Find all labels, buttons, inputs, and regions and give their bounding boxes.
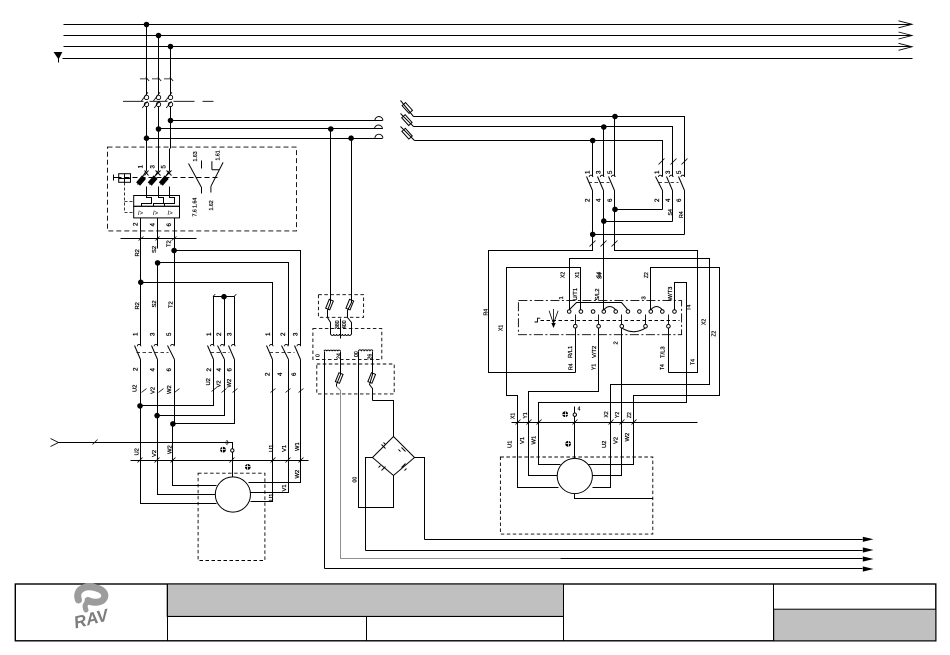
overload relay F1 body [134,196,180,218]
svg-text:U1: U1 [508,441,514,448]
svg-text:W2: W2 [167,385,173,394]
earth terminal circle motor2 [573,413,576,416]
svg-text:S4: S4 [597,272,603,278]
wire Z2 loop c8 to motor W2 [634,268,720,423]
wire V2 to motor1 [158,416,216,495]
svg-text:2: 2 [613,341,619,344]
svg-text:U1: U1 [269,445,275,452]
wire output line4 [325,568,863,570]
svg-text:T4: T4 [690,359,696,365]
wire X2 loop c1 to motor U2 [570,259,710,423]
svg-text:R/L1: R/L1 [568,346,574,358]
svg-text:1: 1 [265,332,272,336]
label motor1 right terminals [269,470,301,501]
terminal strip motor2 [512,420,698,425]
contactor K2 linkage [211,352,230,354]
svg-text:1.62: 1.62 [209,200,215,210]
label primary taps 380 400 [335,320,348,329]
fuse feeder F4b [401,114,414,127]
contactor K3 pole 3 [295,339,301,461]
wire main pole T2 down [174,251,176,339]
svg-text:1: 1 [133,332,140,336]
svg-text:W2: W2 [227,379,233,388]
auxiliary contact 1.63 1.64 [189,161,202,194]
wire drop phase3 [170,47,172,96]
node K4K5 joint a [613,207,618,212]
svg-text:V2: V2 [151,387,157,394]
contactor K5 linkage [659,182,679,184]
svg-text:R2: R2 [135,302,141,309]
svg-text:1: 1 [138,165,145,169]
motor M2 dashed enclosure [500,457,652,534]
arrow output line1 [863,537,874,542]
svg-text:X1: X1 [499,325,505,331]
svg-text:V1: V1 [520,437,526,444]
contactor K1 main pole 1 [135,339,141,406]
svg-text:T2: T2 [168,301,174,308]
wire phase1 to breaker [146,139,148,149]
svg-text:6: 6 [607,198,614,202]
transformer secondary winding 00-26 [359,350,373,351]
terminal strip line below breaker [121,237,197,241]
svg-text:3: 3 [149,332,156,336]
label switch wire names small [499,272,718,370]
svg-text:I>: I> [168,211,174,217]
wire phase3 below disconnect [170,107,172,121]
wire W1 to motor1 [249,461,301,483]
breaker manual operator [114,174,134,213]
logo RAV [72,587,112,633]
wire relay output 6 [174,218,176,249]
wire relay output 4 [157,218,159,249]
svg-text:1: 1 [654,170,661,174]
svg-text:V2: V2 [152,450,158,457]
wire b5 drop [668,329,670,373]
motor protection breaker Q1 dashed enclosure [108,147,297,231]
label PE wire 3 [226,441,229,447]
label K5 pole numbers [654,170,683,202]
wire V1 to motor1 [251,461,289,493]
wire rectifier dc plus [415,458,425,540]
contactor K3 pole 1 [267,339,274,461]
svg-text:Y1: Y1 [523,412,529,418]
svg-text:R4: R4 [483,309,489,316]
wire WT3 loop c10 to motor W1 [539,283,687,423]
label K1 output wires U2 V2 W2 [132,385,173,394]
wire bus L1 [64,24,912,26]
wire feeder row2 [159,128,383,130]
svg-text:2: 2 [133,367,140,371]
fuse box F3 dashed [317,364,394,394]
svg-text:2: 2 [216,332,223,336]
svg-text:2: 2 [133,222,140,226]
svg-text:00: 00 [353,477,359,483]
wire 24 output grey [337,387,561,559]
breaker pole 1 [137,149,149,196]
node tap R2 [139,280,144,285]
svg-text:U1: U1 [269,494,275,501]
svg-text:2: 2 [585,198,592,202]
contactor K3 linkage [270,352,295,354]
contactor K2 pole 1 [141,297,215,406]
ticks R contactor inputs [659,159,688,165]
wire output line2 [366,550,863,552]
node K4K5 joint b [602,219,607,224]
wire U2 to motor1 [141,406,217,504]
contactor K5 pole 5 [679,173,685,235]
node junction L3 [168,44,173,49]
label secondary taps [315,351,373,359]
svg-text:T2: T2 [167,240,173,247]
svg-text:X2: X2 [702,319,708,325]
wire W1 to motor2 [539,423,561,465]
svg-text:4: 4 [665,198,672,202]
fuse F2b [346,295,354,318]
earth symbol motor1 b [245,464,251,470]
wire U2 to motor2 [593,423,611,488]
wire feeder right row3 [415,141,663,173]
wire K5 p3 to K4 p3 [604,221,673,223]
svg-text:W1: W1 [295,442,301,451]
arrow output line4 [863,566,874,571]
svg-text:6: 6 [166,223,173,227]
svg-text:T/L3: T/L3 [660,346,666,358]
contactor K4 pole 1 [587,170,593,235]
jumper arc c8 c9 [651,307,663,310]
svg-text:U2: U2 [206,378,212,385]
contactor K1 main pole 3 [152,339,158,416]
svg-text:X2: X2 [561,272,567,278]
wire V1 to motor2 [529,423,558,476]
earth symbol motor2 a [562,411,568,417]
connector socket row3 [375,134,383,138]
svg-text:6: 6 [166,368,173,372]
svg-text:3: 3 [227,332,234,336]
label wire 00 [353,477,359,483]
svg-text:5: 5 [166,332,173,336]
svg-text:1: 1 [585,170,592,174]
svg-text:R4: R4 [679,211,685,218]
label overload I> symbols [138,211,173,217]
node tap S contactor p1 [590,138,595,143]
node K4K5 joint c [590,232,595,237]
svg-text:3: 3 [293,332,300,336]
svg-text:V1: V1 [282,445,288,452]
label strip1 wires U2 V2 W2 [135,445,174,457]
transformer primary winding [331,319,351,339]
arrow L2 [899,32,913,39]
cam switch actuator symbols [535,309,559,328]
svg-text:0: 0 [315,354,321,357]
earth terminal circle motor1 [231,449,234,452]
earth symbol motor2 b [565,441,571,447]
svg-text:V/T2: V/T2 [592,346,598,358]
svg-text:S2: S2 [152,300,158,307]
svg-text:6: 6 [227,368,234,372]
svg-text:2: 2 [654,198,661,202]
switch contact strokes [576,315,669,325]
svg-text:R4: R4 [569,363,575,370]
wire K5 p5 to K4 p1 [593,234,685,236]
svg-text:T4: T4 [686,304,692,310]
label wires R2 S2 T2 lower [135,300,174,309]
wire transformer feed b [351,139,353,295]
wire phase3 to breaker [170,121,172,149]
svg-text:U2: U2 [132,385,138,392]
ticks K2 outputs [212,388,238,393]
breaker pole 5 [160,149,172,196]
svg-text:S/L2: S/L2 [595,289,601,301]
svg-text:6: 6 [676,198,683,202]
node tap S contactor p5 [613,114,618,119]
motor M1 [215,477,250,512]
arrow output line2 [863,547,874,552]
wire feeder right row1 [414,117,685,173]
wire W2 to motor2 [589,423,634,465]
wire U1 to motor2 [518,423,559,488]
wire S contactor drops [593,117,615,170]
motor M2 [557,458,592,493]
svg-text:4: 4 [150,223,157,227]
svg-text:2: 2 [206,368,213,372]
wire PE motor1 [51,439,233,477]
label wire R4 left [483,309,489,316]
wire phase1 below disconnect [146,107,148,139]
fuse feeder F4c [401,127,415,141]
title block frame [15,584,936,641]
label motor2 wire names above strip [511,411,633,419]
earth symbol motor1 a [220,447,226,453]
svg-text:3: 3 [642,296,648,299]
jumper arc c4 c5 [604,307,616,310]
wire phase2 below disconnect [158,107,160,129]
node tap S contactor p3 [602,125,607,130]
wire U1 to motor1 [251,461,273,502]
svg-text:7.6 1.64: 7.6 1.64 [193,198,199,217]
node junction L1 [144,22,149,27]
node tap transformer feed b [349,136,354,141]
contactor K1 main pole 5 [168,339,175,424]
breaker pole 3 [148,149,160,196]
ticks K3 outputs [271,389,304,393]
svg-text:I>: I> [138,211,144,217]
wire R2 to right contactor [141,283,273,339]
motor M1 dashed enclosure [198,473,265,560]
cam switch S1 enclosure dash-dot [518,301,681,335]
wire Y2 b3 to motor V2 [621,329,623,423]
svg-text:1.61: 1.61 [216,150,222,160]
label relay outputs 2 4 6 [133,222,173,227]
svg-text:2: 2 [280,332,287,336]
wire X1 loop c2 to motor U1 [507,268,581,423]
wire bus L2 [64,35,912,37]
svg-text:X1: X1 [511,413,517,419]
contactor K4 linkage [589,182,610,184]
wire fuse a to transformer [328,318,331,335]
svg-text:X2: X2 [604,411,610,417]
contactor K1 linkage [137,352,169,354]
node star bridge [222,294,227,299]
switch terminals top row [567,310,676,314]
node feeder tap 2 [156,127,161,132]
wire 00 [359,352,394,508]
svg-text:3: 3 [596,170,603,174]
wire K5 p1 to K4 p5 [615,209,663,211]
wire main pole S2 down [157,263,159,339]
wire S4 to switch [603,222,605,311]
wire W2 to motor1 [173,424,217,486]
svg-text:I>: I> [153,211,159,217]
contactor K5 pole 3 [667,173,674,222]
node tap T2 [172,248,177,253]
wire main pole R2 down [140,249,142,339]
node K2 to K1 joint V2 [155,413,160,418]
svg-text:W2: W2 [625,433,631,442]
wire drop phase1 [146,25,148,96]
node junction L2 [156,33,161,38]
node tap transformer feed a [329,127,334,132]
wire T4 loop to switch [615,210,698,373]
node N start marker [55,53,62,63]
wire output line3 [561,558,863,560]
label wires R2 S2 T2 upper [135,240,172,256]
contactor K4 pole 5 [609,170,616,210]
svg-text:Y2: Y2 [615,412,621,418]
contactor K3 pole 2 [282,339,289,461]
svg-text:U2: U2 [135,448,141,455]
svg-text:3: 3 [226,441,229,447]
jumper arc b3 b4 [622,328,646,332]
wire b1 drop [575,329,577,373]
wire transformer feed a [330,129,332,295]
wire V2 to motor2 [593,423,622,476]
ticks K1 outputs [142,389,180,393]
label switch bottom terminals [568,341,667,358]
label K3 wires U1 V1 W1 [269,442,301,452]
svg-text:U/T1: U/T1 [573,288,579,301]
disconnect plug contacts Q0 [123,77,214,108]
label switch top terminals [559,287,674,301]
label aux contact numbers [193,150,222,216]
wire relay output 2 [140,218,142,249]
svg-text:5: 5 [607,170,614,174]
svg-text:W/T3: W/T3 [668,287,674,301]
svg-text:1: 1 [559,296,565,299]
label K2 pole numbers [206,332,234,372]
svg-text:V2: V2 [217,380,223,387]
svg-text:5: 5 [676,170,683,174]
wire 26 to rectifier ac top [373,401,394,437]
contactor K2 star bridge [213,294,237,296]
wire 0 output [324,352,326,569]
wire S2 to right contactor [158,263,289,339]
svg-text:3: 3 [149,165,156,169]
svg-text:Z2: Z2 [644,272,650,278]
wire Y1 loop b2 to motor V1 [529,329,599,423]
svg-text:S4: S4 [668,209,674,215]
svg-text:S2: S2 [152,246,158,253]
fuse F2a [326,295,334,318]
connector socket row1 [375,117,383,121]
label motor2 terminals below strip [508,433,632,448]
node feeder tap 1 [144,136,149,141]
svg-text:W2: W2 [295,470,301,479]
ticks K4 outputs [590,241,618,247]
transformer T1 dashed enclosure [313,329,382,360]
contactor K2 pole 3 [173,297,236,424]
label PE wire 4 [578,407,581,413]
contactor K2 pole 2 [158,297,225,416]
svg-text:Y1: Y1 [592,364,598,370]
cam switch mechanism line [541,320,680,322]
wire drop phase2 [158,36,160,96]
fuse box F2 dashed [318,295,363,318]
svg-text:V1: V1 [282,484,288,491]
svg-text:1: 1 [206,332,213,336]
arrow L3 [899,43,913,50]
wire bus L3 [64,46,912,48]
svg-text:24: 24 [336,353,342,359]
wire bus N [63,58,913,60]
label wire S4 upper [597,273,603,279]
wire rectifier dc minus [366,458,373,551]
svg-text:2: 2 [264,372,271,376]
node K2 to K1 joint U2 [138,404,143,409]
svg-text:Z2: Z2 [712,330,718,336]
svg-text:4: 4 [216,368,223,372]
transformer secondary winding 0-24 [324,350,341,351]
node feeder tap 3 [168,118,173,123]
svg-text:T4: T4 [660,364,666,370]
svg-text:6: 6 [291,372,298,376]
svg-text:4: 4 [277,372,284,376]
wire T2 to right contactor [175,251,301,339]
svg-text:Z2: Z2 [627,412,633,418]
wire phase2 to breaker [158,129,160,149]
node tap S2 [155,261,160,266]
fuse F3b [368,352,376,401]
wire feeder right row2 [414,127,673,173]
node K2 to K1 joint W2 [171,422,176,427]
wire feeder row3 [147,138,383,140]
svg-text:5: 5 [160,165,167,169]
fuse feeder F4a [401,101,414,117]
svg-text:400: 400 [342,320,348,329]
label pole numbers 1 3 5 [138,165,168,169]
contactor K4 pole 3 [598,170,604,222]
svg-text:4: 4 [578,407,581,413]
wire PE motor2 [574,407,576,459]
label wires S4 R4 [668,209,685,218]
svg-text:380: 380 [335,320,341,329]
contactor K5 pole 1 [656,173,663,210]
svg-text:U2: U2 [602,441,608,448]
svg-text:3: 3 [665,170,672,174]
breaker trip linkage [117,177,218,179]
svg-text:1.63: 1.63 [193,151,199,161]
arrow L1 [899,21,913,28]
fuse F3a [335,352,343,387]
label K3 pole numbers [264,332,299,376]
wire output line1 [425,539,863,541]
label wire T4 right [690,359,696,365]
jumper terminal1 to terminal6 [570,303,628,310]
wire motor2 frame bond [575,494,653,499]
auxiliary contact 1.61 1.62 [211,161,223,192]
wire feeder row1 [171,120,383,122]
arrow output line3 [863,556,874,561]
wire R4 loop to switch [489,235,593,373]
